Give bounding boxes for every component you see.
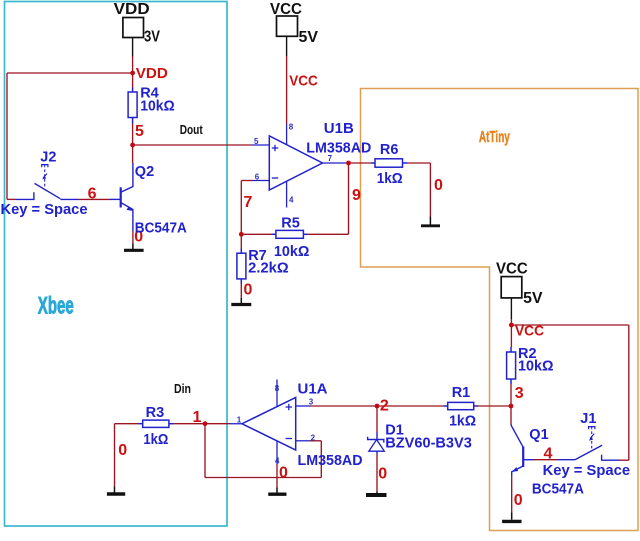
ground at D1 — [366, 492, 387, 495]
AtTiny region box — [361, 89, 639, 531]
svg-text:7: 7 — [244, 194, 253, 211]
svg-text:10kΩ: 10kΩ — [518, 359, 554, 375]
svg-text:0: 0 — [279, 464, 288, 481]
wire net VDD left vertical down to J2 — [6, 73, 8, 199]
wire net 0 R3 left to ground — [115, 423, 139, 425]
wire net 0 R6 right to ground — [407, 162, 430, 164]
ground at R7 — [231, 298, 251, 305]
resistor R3 — [139, 420, 174, 427]
svg-text:10kΩ: 10kΩ — [140, 98, 175, 114]
svg-text:4: 4 — [544, 446, 553, 463]
resistor R7 — [237, 249, 246, 284]
svg-text:R3: R3 — [146, 405, 165, 421]
svg-text:0: 0 — [244, 281, 253, 298]
wire net VDD vertical from supply to R4 — [132, 57, 134, 88]
svg-text:BC547A: BC547A — [532, 481, 584, 497]
wire net 7 node down to R7 — [240, 234, 242, 248]
svg-text:8: 8 — [289, 123, 294, 132]
ground at Q2 emitter — [124, 244, 144, 251]
wire net 2 node to R1 left — [377, 405, 444, 407]
junction node 1 — [203, 421, 208, 426]
svg-text:Q2: Q2 — [135, 164, 154, 180]
wire net 4 Q1 base to J1 — [534, 459, 558, 461]
wire net 1 feedback loop up to pin2 — [320, 441, 322, 478]
wire net 3 node down to Q1 collector — [510, 406, 512, 425]
svg-text:Key = Space: Key = Space — [543, 463, 631, 479]
transistor Q1 — [511, 424, 534, 477]
svg-text:1: 1 — [193, 409, 202, 426]
svg-text:9: 9 — [352, 187, 361, 204]
wire net 7 node to R5 left — [241, 233, 271, 235]
power VCC 5V supply (right) — [501, 277, 522, 319]
resistor R2 — [507, 347, 516, 384]
wire net VCC right loop down — [628, 325, 630, 460]
wire net 1 feedback loop down — [204, 424, 206, 478]
svg-text:3V: 3V — [144, 29, 161, 46]
svg-text:4: 4 — [289, 195, 294, 204]
svg-text:0: 0 — [434, 177, 443, 194]
wire net 1 feedback into pin2 stub — [310, 440, 321, 442]
wire net 1 R3 right to U1A output — [173, 423, 230, 425]
svg-text:Dout: Dout — [180, 122, 204, 137]
ground at R6 — [421, 217, 440, 226]
ground at R3 — [107, 486, 125, 494]
svg-text:U1A: U1A — [298, 382, 329, 398]
ground at U1A pin4 — [268, 488, 286, 495]
junction node 2 — [375, 404, 380, 409]
power VCC 5V supply (top middle) — [277, 16, 298, 56]
svg-text:LM358AD: LM358AD — [298, 453, 363, 469]
svg-text:1kΩ: 1kΩ — [377, 171, 403, 187]
wire net VDD horizontal to left — [7, 72, 133, 74]
svg-text:AtTiny: AtTiny — [479, 129, 510, 146]
op-amp U1A — [230, 380, 311, 465]
svg-text:2: 2 — [380, 397, 389, 414]
junction node VCC right — [509, 323, 514, 328]
ground at Q1 emitter — [502, 513, 521, 522]
wire net VCC from supply to U1B pin8 — [286, 56, 288, 124]
resistor R5 — [272, 230, 308, 238]
junction node 7 — [239, 232, 244, 237]
wire net 0 U1A pin4 to ground — [276, 464, 278, 488]
wire net 0 D1 bottom to ground — [376, 454, 378, 492]
resistor R4 — [128, 87, 137, 124]
svg-text:1kΩ: 1kΩ — [143, 432, 168, 448]
wire net 0 R7 bottom to ground — [240, 284, 242, 298]
svg-text:LM358AD: LM358AD — [306, 140, 371, 156]
wire net 0 Q1 emitter to ground — [511, 477, 513, 513]
svg-text:10kΩ: 10kΩ — [274, 244, 310, 260]
svg-text:3: 3 — [515, 385, 524, 402]
svg-text:VCC: VCC — [515, 323, 544, 340]
wire net VDD into J2 left terminal — [7, 198, 16, 200]
svg-text:R6: R6 — [380, 142, 399, 158]
svg-text:VCC: VCC — [270, 1, 302, 18]
wire net 0 Q2 emitter to ground — [132, 231, 134, 244]
wire net 6 J2 to Q2 base — [79, 198, 111, 200]
svg-text:5V: 5V — [523, 290, 543, 307]
resistor R1 — [444, 402, 479, 409]
svg-text:1: 1 — [237, 416, 242, 425]
svg-text:VCC: VCC — [289, 73, 318, 90]
svg-text:2: 2 — [311, 434, 316, 443]
svg-text:5: 5 — [254, 137, 259, 146]
svg-text:2.2kΩ: 2.2kΩ — [248, 260, 289, 276]
wire net 1 feedback loop bottom — [205, 477, 321, 479]
svg-text:4: 4 — [275, 457, 280, 466]
wire net 2 U1A pin3 to node 2 — [311, 405, 378, 407]
svg-text:3: 3 — [309, 397, 314, 406]
resistor R6 — [371, 159, 407, 167]
svg-text:J2: J2 — [40, 149, 56, 165]
svg-text:VDD: VDD — [114, 1, 150, 18]
svg-text:R1: R1 — [452, 385, 471, 401]
op-amp U1B — [252, 124, 345, 208]
svg-text:Q1: Q1 — [529, 427, 548, 443]
transistor Q2 — [110, 163, 133, 231]
svg-text:0: 0 — [514, 492, 523, 509]
svg-text:U1B: U1B — [324, 121, 354, 137]
svg-text:5V: 5V — [299, 29, 319, 46]
wire net 7 vertical down to node — [240, 181, 242, 235]
svg-text:Xbee: Xbee — [38, 293, 74, 320]
switch J1 — [558, 427, 620, 461]
svg-text:Din: Din — [174, 381, 191, 396]
wire net 9 U1B output to R6 — [345, 162, 371, 164]
wire net 7 U1B pin6 stub to vertical — [241, 180, 252, 182]
wire net VCC right loop into J1 — [620, 459, 629, 461]
svg-text:8: 8 — [275, 384, 280, 393]
wire net 2 node down to D1 — [376, 406, 378, 432]
Xbee region box — [5, 2, 228, 527]
zener diode D1 — [368, 432, 385, 454]
wire net 9 horizontal to R5 right — [308, 233, 349, 235]
svg-text:1kΩ: 1kΩ — [449, 414, 476, 430]
junction node VDD — [130, 71, 135, 76]
svg-text:BC547A: BC547A — [135, 220, 187, 236]
svg-text:0: 0 — [378, 466, 387, 483]
wire net VCC right horizontal to loop — [511, 324, 628, 326]
svg-text:6: 6 — [88, 185, 97, 202]
svg-text:BZV60-B3V3: BZV60-B3V3 — [385, 436, 472, 452]
wire net 5 Dout horizontal to U1B pin5 — [133, 144, 252, 146]
junction node 9 — [346, 161, 351, 166]
switch J2 — [16, 165, 79, 200]
svg-text:0: 0 — [118, 442, 127, 459]
wire net 3 from R2 down to node — [510, 384, 512, 406]
junction node 5 — [130, 143, 135, 148]
svg-text:VDD: VDD — [136, 65, 168, 82]
wire net 5 down to Q2 collector — [132, 145, 134, 163]
svg-text:VCC: VCC — [496, 261, 528, 278]
wire net 5 from R4 to node 5 — [132, 124, 134, 146]
svg-text:R5: R5 — [281, 215, 300, 231]
junction node 3 — [509, 404, 514, 409]
power VDD 3V supply — [123, 18, 144, 57]
wire net VCC right supply to R2 — [510, 319, 512, 347]
svg-text:5: 5 — [135, 123, 144, 140]
wire net 9 vertical down from output node — [348, 163, 350, 234]
svg-text:Key = Space: Key = Space — [1, 202, 88, 218]
wire net 3 R1 right to node 3 — [478, 405, 511, 407]
svg-text:J1: J1 — [580, 411, 596, 427]
svg-text:6: 6 — [255, 173, 260, 182]
